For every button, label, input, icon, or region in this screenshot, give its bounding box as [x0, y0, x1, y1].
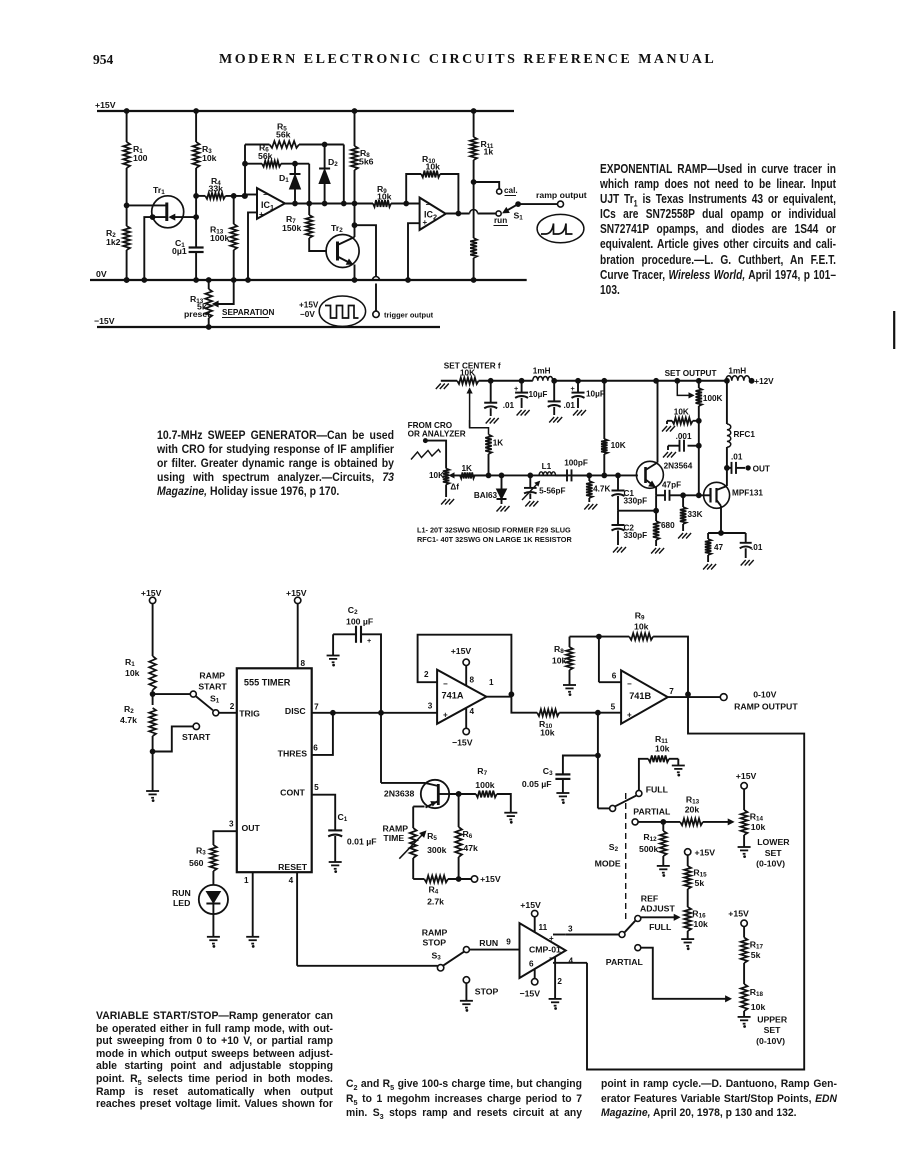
wire CMP pin6 -15V [520, 960, 541, 999]
-15V rail [94, 316, 440, 327]
svg-text:1mH: 1mH [728, 367, 746, 376]
svg-text:C3: C3 [543, 766, 553, 777]
svg-text:10µF: 10µF [586, 389, 605, 398]
svg-text:FULL: FULL [646, 784, 669, 794]
svg-text:2N3564: 2N3564 [664, 461, 693, 470]
wire cal tap [471, 180, 499, 189]
svg-text:SET: SET [764, 1025, 782, 1035]
svg-text:4.7K: 4.7K [593, 485, 610, 494]
svg-text:10k: 10k [693, 919, 708, 929]
wire Tr1 emitter [170, 214, 199, 219]
svg-text:330pF: 330pF [624, 497, 648, 506]
op-amp IC1 [257, 188, 285, 219]
svg-text:5k6: 5k6 [359, 157, 374, 167]
svg-text:0.01 µF: 0.01 µF [347, 837, 377, 847]
svg-text:−: − [549, 954, 554, 963]
wire IC2 output [446, 210, 496, 214]
resistor R3 [193, 109, 217, 196]
diode D2 [319, 142, 338, 206]
ground R8b [563, 685, 576, 695]
svg-text:560: 560 [189, 858, 204, 868]
wire CMP pin4 out [553, 957, 587, 966]
wire rail segment A [479, 378, 533, 383]
wire R11 column down [473, 182, 475, 238]
svg-text:−: − [443, 680, 448, 689]
svg-text:6: 6 [313, 743, 318, 752]
resistor 10K horizontal [662, 407, 701, 431]
svg-text:555 TIMER: 555 TIMER [244, 678, 291, 688]
potentiometer 10K delta-f [429, 469, 460, 505]
wire 741A output [486, 678, 513, 697]
svg-text:REF: REF [641, 894, 658, 904]
svg-text:741B: 741B [629, 691, 651, 701]
wire RUN [469, 938, 519, 950]
svg-text:8: 8 [470, 676, 475, 685]
svg-text:10µF: 10µF [529, 390, 548, 399]
svg-text:+15V: +15V [286, 588, 307, 598]
svg-text:+: + [627, 711, 632, 720]
svg-text:10k: 10k [655, 744, 670, 754]
svg-text:R18: R18 [750, 987, 764, 998]
resistor R5 [245, 122, 344, 148]
svg-text:+: + [259, 210, 264, 219]
dashed mode line [625, 793, 627, 921]
svg-text:ADJUST: ADJUST [640, 904, 675, 914]
inductor L1 [539, 462, 555, 475]
inductor RFC1 [725, 378, 756, 468]
ground R7b [504, 813, 517, 823]
svg-text:RFC1- 40T 32SWG ON LARGE 1K R: RFC1- 40T 32SWG ON LARGE 1K RESISTOR [417, 535, 572, 544]
waveform trigger square wave [299, 296, 366, 326]
potentiometer R16 10k [641, 907, 708, 950]
svg-text:10k: 10k [540, 728, 555, 738]
svg-text:D1: D1 [279, 173, 289, 184]
page title [219, 52, 713, 68]
svg-text:300k: 300k [427, 845, 446, 855]
node +12V [749, 377, 774, 386]
svg-text:R2: R2 [124, 704, 134, 715]
svg-text:BAI63: BAI63 [474, 491, 498, 500]
capacitor 10uF (2) [571, 381, 605, 416]
svg-text:START: START [198, 681, 227, 691]
svg-text:S3: S3 [432, 951, 442, 962]
node 741B plus node [596, 710, 622, 715]
resistor 10K vertical [601, 381, 626, 476]
wire mid bus [451, 473, 638, 478]
svg-text:−: − [263, 190, 268, 199]
svg-text:+: + [443, 711, 448, 720]
wire pin8 [298, 604, 306, 669]
wire CMP pin11 +15V [520, 900, 547, 932]
resistor R10b 10k [511, 694, 598, 737]
svg-text:150k: 150k [282, 223, 301, 233]
svg-text:OUT: OUT [242, 823, 261, 833]
IC 555 timer box [237, 668, 312, 872]
svg-text:0-10V: 0-10V [753, 690, 776, 700]
wire R5 right vertical [341, 145, 346, 206]
resistor R12b 500k [639, 822, 670, 876]
svg-text:1: 1 [244, 876, 249, 885]
resistor 4.7K [584, 475, 610, 509]
svg-text:START: START [182, 732, 211, 742]
svg-text:5: 5 [611, 703, 616, 712]
resistor R1b [125, 604, 156, 695]
svg-text:7: 7 [669, 687, 674, 696]
wire gate row [681, 493, 704, 498]
svg-text:MPF131: MPF131 [732, 489, 763, 498]
node R3/R4 [194, 194, 199, 199]
svg-text:1mH: 1mH [533, 367, 551, 376]
resistor R1 [123, 109, 147, 205]
scan edge mark [893, 311, 895, 349]
terminal +15V R15 [685, 847, 716, 857]
resistor R15 5k [684, 855, 707, 907]
transistor 2N3638 [384, 780, 450, 808]
wire Tr2 collector [352, 223, 357, 237]
svg-text:−15V: −15V [94, 316, 115, 326]
wire Tr1 base1 to 0V [142, 215, 167, 283]
label SEPARATION [222, 308, 275, 318]
svg-text:3: 3 [568, 925, 573, 934]
resistor 1K vertical [485, 435, 503, 476]
switch S3 [422, 928, 470, 972]
potentiometer R18 10k [738, 984, 788, 1046]
wire separation wiper [213, 280, 234, 307]
svg-text:5-56pF: 5-56pF [539, 486, 565, 495]
svg-text:330pF: 330pF [624, 531, 648, 540]
capacitor C2 330pF [612, 511, 648, 553]
terminal cal [497, 186, 518, 196]
capacitor .01 OUT [725, 452, 770, 474]
svg-text:Tr2: Tr2 [331, 223, 343, 234]
wire emitter column [654, 495, 659, 513]
wire pin4 RESET [289, 872, 438, 966]
waveform ramp sawtooth [537, 214, 584, 242]
page header [93, 52, 113, 68]
svg-text:IC1: IC1 [261, 200, 274, 212]
svg-text:D2: D2 [328, 157, 338, 168]
svg-text:FULL: FULL [649, 922, 672, 932]
svg-text:+: + [571, 384, 575, 393]
wire CMP pin2 ground [549, 957, 563, 1009]
node R1/R2 [150, 692, 155, 697]
resistor 47 [703, 533, 723, 570]
svg-text:5: 5 [314, 783, 319, 792]
transistor Tr1 (UJT) [152, 185, 184, 228]
text block variable start/stop [96, 1010, 333, 1111]
svg-text:4.7k: 4.7k [120, 715, 137, 725]
wire 741A pin4 -15V [452, 707, 475, 748]
svg-text:R6: R6 [463, 829, 473, 840]
svg-text:1K: 1K [462, 464, 473, 473]
svg-text:Tr1: Tr1 [153, 185, 165, 196]
capacitor 100pF [555, 458, 589, 481]
svg-text:10k: 10k [751, 822, 766, 832]
svg-text:CONT: CONT [280, 788, 305, 798]
svg-text:R8: R8 [554, 644, 564, 655]
resistor R6 [245, 143, 309, 167]
svg-text:2.7k: 2.7k [427, 897, 444, 907]
wire 2N3564 collector [657, 381, 659, 463]
svg-text:RAMP: RAMP [422, 928, 448, 938]
svg-text:+: + [367, 636, 371, 645]
svg-text:4: 4 [470, 707, 475, 716]
svg-text:TRIG: TRIG [239, 709, 260, 719]
op-amp CMP-01 [520, 923, 566, 978]
svg-text:10k: 10k [377, 192, 392, 202]
svg-text:S2: S2 [609, 842, 619, 853]
potentiometer SET CENTER 10K [457, 378, 478, 428]
terminal trigger output [373, 311, 434, 320]
svg-text:5k: 5k [751, 950, 761, 960]
svg-text:56k: 56k [276, 130, 291, 140]
capacitor C1b 0.01uF [328, 812, 376, 872]
inductor 1mH (1) [533, 367, 553, 381]
switch S2 upper [610, 784, 669, 811]
wire output loop right [587, 694, 804, 1069]
wire pin1 [244, 872, 253, 937]
svg-text:+15V: +15V [695, 847, 716, 857]
svg-text:−: − [627, 680, 632, 689]
svg-text:1k2: 1k2 [106, 237, 121, 247]
svg-text:RUN: RUN [479, 938, 498, 948]
svg-text:−15V: −15V [452, 738, 473, 748]
wire IC1 minus input [242, 194, 257, 199]
capacitor 47pF [656, 480, 683, 500]
svg-text:11: 11 [539, 923, 548, 932]
diode D1 [279, 161, 301, 206]
op-amp 741B [621, 670, 668, 723]
svg-text:+: + [514, 384, 518, 393]
svg-text:R9: R9 [635, 611, 645, 622]
transistor Tr2 [326, 223, 359, 268]
svg-text:+15V: +15V [520, 900, 541, 910]
svg-text:Δf: Δf [450, 482, 459, 491]
resistor R4 [196, 176, 245, 199]
svg-text:3: 3 [229, 820, 234, 829]
svg-text:5k: 5k [695, 878, 705, 888]
svg-text:preset: preset [184, 309, 210, 319]
resistor R3b 560 [189, 845, 217, 885]
ground pin1 [246, 937, 259, 948]
wire 741B minus [597, 634, 622, 711]
svg-text:S1: S1 [210, 694, 220, 705]
svg-text:SEPARATION: SEPARATION [222, 308, 275, 317]
svg-text:.01: .01 [503, 401, 515, 410]
svg-text:PARTIAL: PARTIAL [606, 957, 644, 967]
svg-text:10K: 10K [611, 441, 626, 450]
svg-text:10k: 10k [751, 1002, 766, 1012]
capacitor C1 330pF [612, 473, 648, 511]
svg-text:PARTIAL: PARTIAL [633, 806, 671, 816]
svg-text:10k: 10k [552, 656, 567, 666]
svg-text:OUT: OUT [753, 464, 770, 473]
svg-text:47k: 47k [463, 843, 478, 853]
node 0V junctions [124, 278, 129, 283]
transistor 2N3564 [636, 461, 692, 488]
svg-text:3: 3 [428, 702, 433, 711]
svg-text:6: 6 [529, 960, 534, 969]
terminal PARTIAL lower [606, 945, 644, 967]
svg-text:+15V: +15V [95, 100, 116, 110]
svg-text:33k: 33k [209, 183, 224, 193]
resistor R9 [373, 184, 420, 207]
switch S1b [190, 671, 227, 716]
svg-text:−15V: −15V [520, 989, 541, 999]
text column middle [346, 1077, 582, 1121]
resistor R7b 100k [475, 766, 511, 813]
wire IC2 plus input [406, 223, 420, 282]
wire 741B output [668, 687, 721, 697]
svg-text:−: − [426, 200, 431, 209]
svg-text:+12V: +12V [754, 377, 774, 386]
terminal +15V R4 [471, 874, 501, 884]
svg-text:LOWER: LOWER [757, 837, 790, 847]
svg-text:100 µF: 100 µF [346, 617, 373, 627]
svg-text:SET: SET [765, 848, 783, 858]
terminal START [153, 723, 211, 751]
svg-text:MODE: MODE [595, 859, 621, 869]
svg-text:L1- 20T 32SWG NEOSID FORMER F: L1- 20T 32SWG NEOSID FORMER F29 SLUG [417, 526, 571, 535]
resistor 1K horizontal [460, 464, 489, 478]
terminal ramp output [536, 190, 587, 207]
svg-text:100k: 100k [475, 780, 494, 790]
resistor R4b 2.7k [413, 876, 471, 907]
svg-text:4: 4 [289, 876, 294, 885]
text block exponential ramp [600, 162, 836, 299]
svg-text:.01: .01 [751, 543, 763, 552]
resistor R9b 10k [570, 611, 689, 695]
wire source row [708, 531, 746, 536]
svg-text:47pF: 47pF [662, 480, 681, 489]
svg-text:(0-10V): (0-10V) [756, 859, 785, 869]
wire rail segment B [552, 378, 726, 383]
svg-text:R5: R5 [427, 831, 437, 842]
wire mid rail [441, 380, 457, 382]
wire OUT pin3 [213, 820, 236, 845]
svg-text:741A: 741A [442, 691, 464, 701]
svg-text:+15V: +15V [451, 646, 472, 656]
resistor R8 [351, 109, 374, 226]
wire ramp output [518, 203, 557, 205]
wire CMP pin3 out [553, 925, 573, 935]
svg-text:run: run [494, 216, 507, 225]
capacitor .01 (1) [484, 381, 514, 424]
text block sweep generator [157, 428, 394, 498]
svg-text:20k: 20k [685, 805, 700, 815]
node R2/START [150, 749, 155, 754]
svg-text:56k: 56k [258, 151, 273, 161]
svg-text:C2: C2 [348, 605, 358, 616]
svg-text:RAMP: RAMP [199, 671, 225, 681]
svg-text:2: 2 [557, 977, 562, 986]
svg-text:.001: .001 [676, 432, 692, 441]
capacitor C2b 100uF [327, 605, 381, 713]
0V rail [90, 269, 527, 280]
waveform sweep input [411, 450, 441, 460]
potentiometer R5 300k ramp time [383, 807, 447, 880]
ground R2 [146, 750, 159, 801]
svg-text:10k: 10k [634, 622, 649, 632]
svg-text:0µ1: 0µ1 [172, 246, 187, 256]
resistor R6b 47k [455, 792, 478, 882]
wire Tr1 base2 [124, 203, 167, 208]
svg-text:100K: 100K [703, 394, 723, 403]
svg-text:STOP: STOP [475, 987, 499, 997]
wire trigger hop [373, 277, 380, 312]
potentiometer SET OUTPUT 100K [677, 381, 722, 421]
wire THRES [312, 713, 333, 755]
svg-text:6: 6 [612, 672, 617, 681]
svg-text:SET OUTPUT: SET OUTPUT [665, 369, 717, 378]
svg-text:33K: 33K [688, 510, 703, 519]
svg-text:100: 100 [133, 153, 148, 163]
svg-text:THRES: THRES [278, 748, 308, 758]
resistor R12 (to 0V) [470, 238, 477, 282]
svg-text:10k: 10k [125, 668, 140, 678]
capacitor .01 source [740, 533, 763, 566]
svg-text:RESET: RESET [278, 862, 308, 872]
transistor MPF131 (FET) [704, 468, 764, 533]
wire trigger tap [355, 225, 377, 276]
svg-text:0V: 0V [96, 269, 107, 279]
wire IC1 output bus [285, 203, 373, 205]
svg-text:500k: 500k [639, 844, 658, 854]
resistor R13b 20k [680, 795, 733, 826]
terminal +15V R14 [736, 771, 757, 789]
wire CONT [312, 783, 336, 830]
diode BA163 [474, 475, 510, 511]
wire to S1b [153, 693, 191, 695]
capacitor C3 0.05uF [522, 753, 600, 803]
svg-text:cal.: cal. [504, 186, 518, 195]
svg-text:C1: C1 [338, 812, 348, 823]
svg-text:R12: R12 [643, 832, 657, 843]
terminal +15V R17 [728, 909, 749, 927]
svg-text:+15V: +15V [480, 874, 501, 884]
ground LED [207, 914, 220, 947]
svg-text:STOP: STOP [423, 937, 447, 947]
svg-text:+15V: +15V [141, 588, 162, 598]
svg-text:RFC1: RFC1 [734, 430, 756, 439]
resistor R13 100k [210, 194, 237, 283]
label SET OUTPUT [665, 369, 717, 378]
svg-text:10k: 10k [426, 162, 441, 172]
resistor R10 [406, 154, 461, 216]
inductor 1mH (2) [726, 367, 750, 381]
svg-text:UPPER: UPPER [757, 1015, 788, 1025]
svg-text:+15V: +15V [299, 301, 319, 310]
label S2 MODE [595, 842, 621, 869]
wire C1-680 row [618, 510, 656, 512]
resistor R2b [120, 694, 156, 751]
svg-text:(0-10V): (0-10V) [756, 1036, 785, 1046]
op-amp 741A [437, 670, 486, 724]
wire TRIG [219, 702, 237, 713]
terminal FROM CRO [408, 421, 466, 468]
resistor 680 [651, 511, 675, 554]
wire wiper 1K vertical [470, 420, 489, 435]
svg-text:7: 7 [314, 703, 319, 712]
wire collector row [449, 792, 476, 797]
potentiometer R13 5k preset [184, 278, 212, 330]
terminal PARTIAL upper [632, 806, 671, 825]
svg-text:10K: 10K [674, 407, 689, 416]
svg-text:RUN: RUN [172, 888, 191, 898]
svg-text:R3: R3 [196, 846, 206, 857]
note L1/RFC1 [417, 526, 572, 545]
resistor R11b 10k [639, 734, 685, 790]
